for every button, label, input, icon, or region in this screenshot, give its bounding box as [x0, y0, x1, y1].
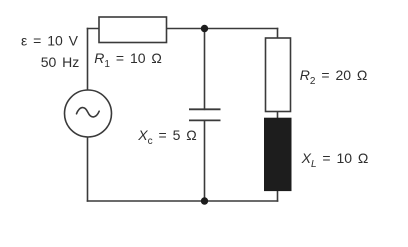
resistor R1: [99, 17, 167, 43]
inductor XL: [265, 118, 292, 190]
wire middle vertical upper (capacitor top lead): [204, 29, 206, 110]
wire top horizontal: [88, 28, 278, 30]
svg-text:R2 = 20 Ω: R2 = 20 Ω: [300, 67, 368, 87]
svg-text:XL = 10 Ω: XL = 10 Ω: [301, 150, 369, 170]
wire left vertical: [87, 29, 89, 202]
wire bottom horizontal: [88, 200, 278, 202]
svg-text:ε = 10 V: ε = 10 V: [21, 33, 79, 49]
ac source U1: [65, 90, 112, 137]
svg-text:50 Hz: 50 Hz: [41, 54, 80, 70]
capacitor Xc: [189, 109, 221, 120]
node top junction: [201, 25, 208, 32]
resistor R2: [266, 38, 291, 112]
wire right vertical: [277, 29, 279, 202]
node bottom junction: [201, 197, 208, 204]
svg-text:Xc = 5 Ω: Xc = 5 Ω: [137, 127, 196, 147]
wire middle vertical lower (capacitor bottom lead): [204, 120, 206, 201]
svg-text:R1 = 10 Ω: R1 = 10 Ω: [94, 50, 162, 70]
